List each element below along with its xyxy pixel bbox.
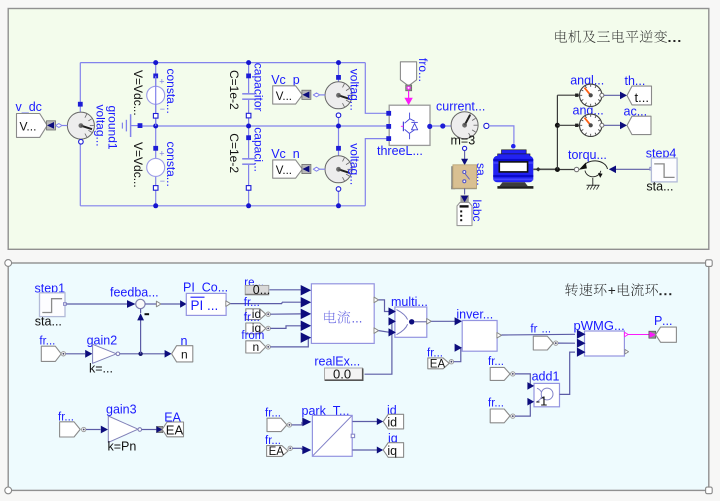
svg-text:0.0: 0.0: [333, 366, 351, 381]
wire top bus drop to inverter pin p: [365, 63, 388, 114]
svg-text:consta...: consta...: [164, 69, 178, 114]
svg-text:fr: fr: [530, 323, 537, 335]
wire Vc_n tag to sensor: [320, 168, 325, 170]
svg-text:v_dc: v_dc: [16, 100, 42, 114]
svg-text:add1: add1: [532, 370, 560, 384]
svg-text:+: +: [159, 77, 164, 87]
wire n tag to current-loop input 5: [270, 338, 310, 347]
wire mid bus (neutral): [140, 125, 389, 127]
svg-text:consta...: consta...: [164, 142, 178, 187]
top panel: motor and three-level inverter model area: [8, 9, 709, 250]
input tag iq: [246, 323, 266, 334]
constant display 0.0: [325, 368, 363, 380]
svg-text:n: n: [253, 340, 260, 354]
svg-text:V...: V...: [276, 165, 292, 177]
current loop block 电流...: [311, 284, 374, 344]
constant voltage source consta... (bottom) V=Vdc: [153, 146, 158, 151]
wire left loop vertical: [79, 63, 81, 112]
svg-text:fr...: fr...: [488, 398, 504, 410]
wire park to id tag: [352, 421, 377, 423]
wire step1 to feedback sum: [66, 303, 127, 305]
wire fr tag to pWMG input 2: [558, 342, 575, 344]
input tag EA (for park): [267, 446, 288, 457]
wire gain3 to EA tag: [142, 429, 157, 431]
wire multiplex to inverse transform: [431, 320, 455, 322]
svg-text:V=Vdc...: V=Vdc...: [131, 142, 145, 188]
wire top DC bus: [80, 62, 365, 64]
svg-text:k=Pn: k=Pn: [108, 440, 137, 454]
svg-text:n: n: [181, 348, 188, 362]
wire park to iq tag: [352, 449, 377, 451]
title 转速环+电流环...: [565, 283, 606, 296]
wire fr tag to gain2: [66, 353, 85, 355]
svg-text:id: id: [387, 415, 397, 429]
wire bottom DC bus: [80, 205, 365, 207]
svg-text:capaci...: capaci...: [252, 127, 266, 172]
svg-text:inver...: inver...: [456, 307, 493, 321]
wire iq tag to current-loop input 4: [270, 326, 300, 329]
wire id tag to current-loop input 3: [270, 313, 300, 315]
input tag fr (to add1 -1): [490, 409, 510, 423]
wire speed sensor to ac tag: [604, 124, 621, 126]
svg-text:...: ...: [662, 314, 672, 328]
wire capacitor column vertical: [248, 63, 250, 94]
motor shaft: [533, 168, 555, 170]
input tag fr (speed feedback): [41, 346, 61, 361]
svg-text:PI ...: PI ...: [191, 298, 219, 313]
bottom panel: speed loop + current loop control area: [8, 263, 709, 490]
svg-text:voltag...: voltag...: [347, 143, 361, 185]
wire EA tag to inver input 2: [454, 348, 461, 362]
svg-text:Vc_p: Vc_p: [271, 73, 300, 87]
svg-text:V...: V...: [276, 91, 292, 103]
motor (induction machine icon): [493, 144, 533, 189]
wire inverter to current sensor: [432, 125, 451, 127]
voltage sensor voltag... for Vc_p: [336, 75, 341, 80]
wire fr tag to gain3: [86, 429, 101, 431]
svg-text:C=1e-2: C=1e-2: [227, 133, 241, 173]
svg-text:fr...: fr...: [488, 356, 504, 368]
wire current-loop out1 to multiplex input 1: [379, 300, 389, 312]
svg-text:gain2: gain2: [87, 334, 118, 348]
svg-text:+: +: [159, 149, 164, 159]
svg-text:fr...: fr...: [39, 335, 55, 347]
svg-text:+: +: [608, 283, 616, 298]
current loop output ports: [374, 297, 379, 303]
svg-text:threeL...: threeL...: [377, 144, 423, 158]
pWMG second output port: [625, 349, 629, 354]
capacitor capacitor C=1e-2 (top): [246, 74, 251, 79]
inverter ac output pin: [427, 124, 432, 129]
junction dots on buses: [153, 60, 158, 65]
svg-text:labc: labc: [470, 200, 484, 222]
input tag fr (for park): [267, 418, 287, 431]
svg-text:...: ...: [352, 310, 363, 325]
svg-text:iq: iq: [387, 444, 397, 458]
voltage sensor voltag... (v_dc) gauge: [78, 102, 83, 107]
ground pin: [138, 123, 143, 128]
recorder block labc: [457, 202, 472, 225]
voltage sensor voltag... for Vc_n: [336, 146, 341, 151]
wire current sensor to sa switch: [464, 151, 466, 160]
svg-text:voltag...: voltag...: [347, 69, 361, 111]
svg-text:V...: V...: [20, 120, 37, 134]
wire fr tag to add1 input 2: [515, 402, 532, 416]
svg-text:-1: -1: [536, 394, 548, 409]
svg-text:t...: t...: [635, 90, 649, 105]
svg-text:...: ...: [542, 323, 552, 335]
svg-text:sa...: sa...: [474, 163, 488, 186]
svg-text:feedba...: feedba...: [110, 285, 159, 299]
wire gate signal magenta: [408, 91, 410, 98]
wire source column vertical: [155, 63, 157, 206]
svg-text:PI_Co...: PI_Co...: [183, 281, 228, 295]
wire sa to labc: [464, 188, 466, 194]
wire step4 to torque: [615, 168, 651, 170]
wire EA tag to park input 2: [292, 447, 302, 449]
torque support symbol: [585, 171, 601, 177]
input tag fro... (gate signal): [400, 62, 416, 86]
svg-text:capacitor: capacitor: [252, 63, 266, 112]
wire pWMG to P tag (magenta): [628, 334, 649, 336]
minus sign of feedback: [145, 313, 150, 315]
three-level inverter block threeL...: [389, 105, 430, 145]
selection handles: [5, 260, 12, 267]
multiplex output port: [427, 319, 432, 325]
pWMG firing output port (magenta): [625, 332, 629, 337]
input tag fr (for gain3): [60, 422, 81, 437]
wire inver output to pWMG input 1: [502, 333, 576, 336]
wire current sensor to motor: [489, 126, 514, 144]
svg-text:EA: EA: [430, 358, 446, 370]
svg-text:EA: EA: [269, 446, 285, 458]
input tag n (speed): [246, 341, 266, 353]
wire v_dc tag to sensor: [62, 125, 67, 127]
svg-text:gain3: gain3: [106, 403, 137, 417]
svg-text:torqu...: torqu...: [568, 148, 607, 162]
wire PI to current-loop ref input: [230, 303, 282, 305]
svg-text:fr...: fr...: [265, 407, 281, 419]
svg-text:voltag...: voltag...: [94, 105, 108, 147]
capacitor capaci... C=1e-2 (bottom): [246, 135, 251, 140]
svg-text:m=3: m=3: [451, 134, 476, 148]
input tag EA (angle): [428, 358, 449, 369]
svg-text:ground1: ground1: [106, 106, 120, 150]
wire shaft to torque and sensors (black): [556, 169, 575, 171]
svg-text:0...: 0...: [253, 283, 270, 297]
svg-text:sta...: sta...: [35, 314, 62, 328]
wire gain2 to n tag and feedback: [120, 353, 166, 355]
title 电机及三电平逆变...: [555, 30, 667, 43]
wire angle sensor to th tag: [604, 94, 621, 96]
svg-text:sta...: sta...: [646, 180, 673, 194]
wire 0.1 to current-loop input 1: [269, 289, 300, 291]
input tag id: [246, 309, 266, 320]
ground ground1 symbol: [131, 125, 140, 127]
svg-text:Vc_n: Vc_n: [271, 147, 300, 161]
switch block sa...: [451, 166, 455, 189]
svg-text:V=Vdc...: V=Vdc...: [131, 70, 145, 116]
wire feedback vertical to sum (minus): [140, 320, 142, 354]
wire realExpr to multiplex middle input: [365, 321, 392, 374]
constant voltage source consta... (top) V=Vdc: [153, 74, 158, 79]
wire current-loop out2 to multiplex input 3: [379, 331, 389, 333]
wire fr tag to add1 input 1: [515, 374, 532, 386]
input tag fr (to add1 +): [490, 367, 510, 380]
wire fr tag to park input 1: [292, 424, 302, 426]
wire Vc_p tag to sensor: [320, 94, 325, 96]
svg-text:fro...: fro...: [416, 58, 430, 82]
wire Vc sensor column vertical: [338, 63, 340, 82]
inverter left pins p/0/n: [386, 111, 391, 116]
inverter IGBT icon: [401, 113, 418, 140]
wire sum to PI controller: [145, 303, 156, 305]
wire bottom bus rise to inverter pin n: [365, 139, 388, 206]
current loop input arrows: [301, 285, 312, 296]
wire add1 to pWMG input 3: [560, 352, 576, 394]
svg-text:current...: current...: [436, 100, 485, 114]
svg-text:EA: EA: [166, 422, 184, 437]
svg-text:C=1e-2: C=1e-2: [227, 70, 241, 110]
svg-text:k=...: k=...: [89, 362, 113, 376]
multiplex input arrows: [389, 307, 396, 315]
